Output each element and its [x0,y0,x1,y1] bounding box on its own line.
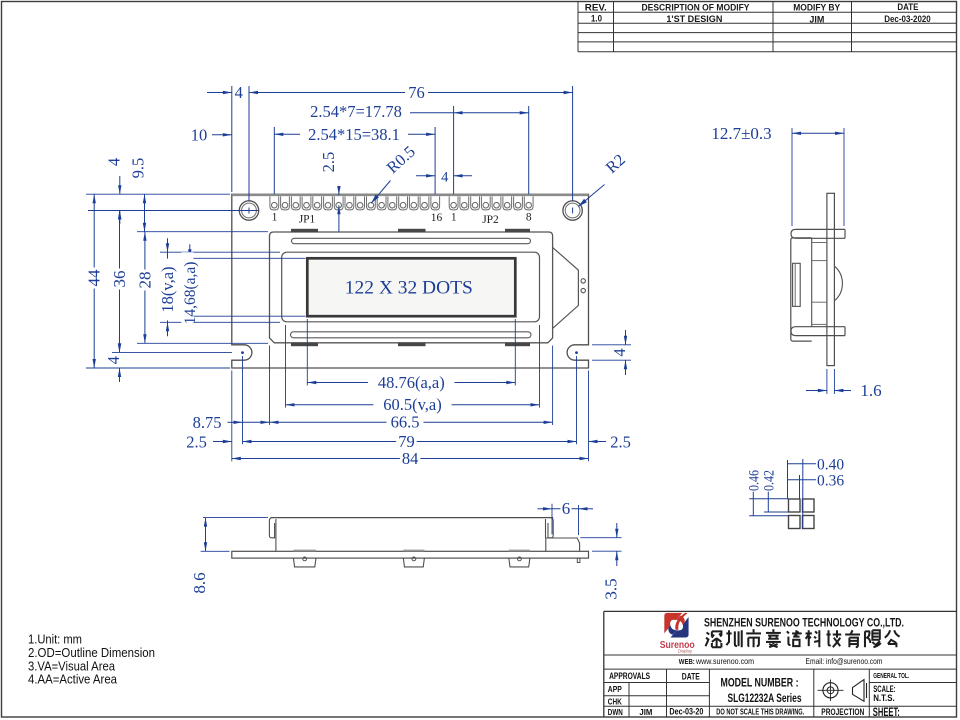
dim 4 top left [207,92,232,94]
svg-text:CHK: CHK [608,697,623,707]
dot detail row ref lines [749,498,788,500]
svg-text:18(v,a): 18(v,a) [158,266,177,312]
svg-text:DWN: DWN [608,707,623,717]
svg-text:0.42: 0.42 [762,470,778,491]
svg-text:JP1: JP1 [299,213,316,225]
svg-text:1'ST DESIGN: 1'ST DESIGN [666,14,722,24]
svg-text:N.T.S.: N.T.S. [873,693,895,703]
svg-text:SLG12232A Series: SLG12232A Series [728,693,802,705]
svg-text:2.54*15=38.1: 2.54*15=38.1 [308,125,400,144]
dim 6 [551,504,553,535]
svg-text:8.75: 8.75 [193,413,222,432]
svg-text:0.46: 0.46 [747,470,763,491]
side view glass layers [812,242,827,244]
side view PCB [827,193,835,365]
svg-text:DATE: DATE [897,2,918,12]
dim 66.5 [270,421,553,423]
bottom view tab slots [293,550,316,552]
svg-text:2.54*7=17.78: 2.54*7=17.78 [310,102,402,121]
dim 79 [243,441,577,443]
side view bezel tabs [791,229,845,238]
PCB outline front view [232,194,589,368]
svg-text:84: 84 [402,449,419,468]
dim 9.5 [144,194,146,232]
visual area window [282,252,540,322]
svg-text:APPROVALS: APPROVALS [609,671,650,682]
svg-text:28: 28 [135,272,154,289]
svg-text:4: 4 [104,356,123,364]
dim 36 [119,211,121,353]
svg-text:2.5: 2.5 [186,433,207,452]
svg-text:1.0: 1.0 [591,14,602,24]
side view lens bump [793,263,801,306]
bottom view PCB [232,551,589,558]
dim 28 [144,232,146,344]
svg-text:76: 76 [408,83,425,102]
dim 2.54*15=38.1 [274,133,300,135]
svg-text:1.6: 1.6 [860,381,881,400]
dim 44 [93,194,95,368]
LCD bezel frame [270,232,553,343]
chinese company name (stroke art) [706,631,722,647]
dim 76 [249,92,573,94]
mounting hole left [239,201,258,220]
svg-text:60.5(v,a): 60.5(v,a) [383,395,442,414]
svg-text:SHEET:: SHEET: [873,707,900,719]
active area [307,258,515,316]
svg-text:JIM: JIM [639,707,652,717]
svg-text:44: 44 [85,269,104,287]
svg-text:66.5: 66.5 [391,413,420,432]
dim 48.76(a,a) [307,382,515,384]
bezel tabs [291,229,318,232]
svg-text:JIM: JIM [809,15,824,25]
dim 1.6 [826,369,828,394]
svg-text:APP: APP [608,684,622,694]
svg-text:10: 10 [191,125,208,144]
connector JP2 pads 1-8 [449,196,458,210]
dim 2.54*7=17.78 [410,112,529,114]
dot matrix detail squares [789,499,801,512]
dim 18(v,a) [167,252,169,322]
svg-text:1.Unit: mm: 1.Unit: mm [28,633,82,647]
svg-text:JP2: JP2 [482,214,499,226]
extension lines left side [86,193,230,195]
dim 3.5 [580,537,621,539]
svg-text:122 X 32 DOTS: 122 X 32 DOTS [345,279,473,299]
dim 4 connector gap [416,175,435,177]
extension lines top [231,86,233,192]
svg-text:www.surenoo.com: www.surenoo.com [695,656,754,666]
title block frame [604,610,957,612]
dim 0.42 [767,492,769,512]
backlight connector [546,538,580,551]
svg-text:Dec-03-20: Dec-03-20 [669,707,703,718]
svg-text:WEB:: WEB: [679,657,695,666]
svg-text:1: 1 [272,212,278,224]
leader R0.5 [371,181,390,204]
svg-text:3.5: 3.5 [601,578,620,599]
svg-text:DO NOT SCALE THIS DRAWING.: DO NOT SCALE THIS DRAWING. [716,708,804,717]
svg-text:4: 4 [104,158,123,166]
dim 12.7±0.3 [791,128,793,226]
svg-text:16: 16 [431,212,443,224]
extension lines bottom [306,319,308,385]
leader R2 [578,185,604,207]
dim 4 bottom left [119,338,121,352]
dim 0.40 [788,463,817,465]
svg-text:4.AA=Active Area: 4.AA=Active Area [28,673,117,687]
svg-text:2.OD=Outline Dimension: 2.OD=Outline Dimension [28,646,155,660]
svg-text:4: 4 [610,348,629,356]
svg-text:1: 1 [451,212,457,224]
svg-text:8: 8 [526,212,532,224]
svg-text:14,68(a,a): 14,68(a,a) [182,262,199,325]
svg-text:MODIFY BY: MODIFY BY [793,2,840,12]
dim 0.46 [752,492,754,516]
svg-text:MODEL NUMBER :: MODEL NUMBER : [721,677,799,689]
revision table [578,11,957,13]
svg-text:DATE: DATE [682,672,700,682]
svg-text:2.5: 2.5 [319,152,338,173]
dim 0.36 [788,479,817,481]
svg-text:0.40: 0.40 [817,457,844,474]
projection symbol [823,683,838,698]
side view dome [834,266,842,301]
svg-text:4: 4 [441,170,449,186]
bezel side holes [581,279,585,283]
svg-text:6: 6 [562,499,571,518]
dim 4 hole depth [119,176,121,194]
PCB top edge thick [232,194,589,197]
svg-text:PROJECTION: PROJECTION [821,707,864,718]
dot detail ref lines [787,460,789,499]
svg-text:GENERAL TOL.: GENERAL TOL. [873,673,909,680]
connector JP1 pads 1-16 [270,196,279,210]
svg-text:REV.: REV. [585,2,607,12]
bottom view tabs [293,558,316,567]
bottom view bezel [271,517,553,519]
dim 84 [232,458,589,460]
dim 4 right slot [592,344,631,346]
svg-text:48.76(a,a): 48.76(a,a) [378,373,445,392]
svg-text:12.7±0.3: 12.7±0.3 [711,124,771,143]
svg-text:Dec-03-2020: Dec-03-2020 [884,14,931,24]
dim 14,68(a,a) [189,258,191,316]
dim 8.6 [203,517,268,519]
bezel side trapezoid [553,247,579,328]
svg-text:Email: info@surenoo.com: Email: info@surenoo.com [806,656,883,666]
side view bezel body [791,238,812,341]
svg-text:Display: Display [678,648,693,654]
svg-text:36: 36 [110,271,129,288]
surenoo logo [662,611,691,639]
svg-text:3.VA=Visual Area: 3.VA=Visual Area [28,659,115,673]
svg-text:DESCRIPTION OF MODIFY: DESCRIPTION OF MODIFY [642,2,750,12]
svg-text:8.6: 8.6 [190,572,209,593]
svg-text:4: 4 [235,83,243,102]
dim 60.5(v,a) [286,404,540,406]
svg-text:9.5: 9.5 [129,158,148,179]
mounting hole right [563,201,582,220]
svg-text:0.36: 0.36 [817,472,844,489]
bezel bottom slot [291,332,532,338]
svg-text:SHENZHEN SURENOO TECHNOLOGY CO: SHENZHEN SURENOO TECHNOLOGY CO.,LTD. [704,615,904,629]
bezel top slot [292,238,531,243]
svg-text:2.5: 2.5 [610,433,631,452]
